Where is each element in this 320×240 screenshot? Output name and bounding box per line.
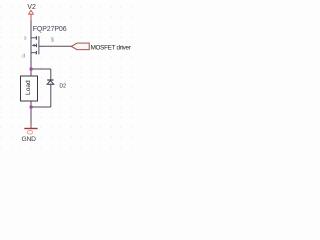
svg-text:s: s — [24, 35, 27, 41]
svg-text:V2: V2 — [27, 4, 36, 11]
svg-text:GND: GND — [22, 136, 37, 143]
svg-text:D2: D2 — [59, 84, 66, 90]
svg-text:FQP27P06: FQP27P06 — [33, 26, 67, 33]
svg-text:MOSFET driver: MOSFET driver — [91, 45, 131, 52]
svg-text:d: d — [22, 53, 25, 59]
svg-text:Load: Load — [25, 80, 32, 95]
svg-text:$: $ — [51, 38, 54, 44]
